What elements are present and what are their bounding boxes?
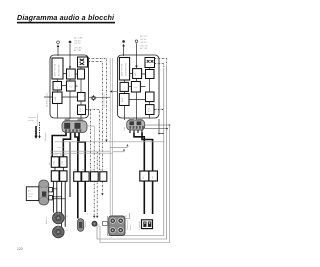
svg-text:EQ: EQ [135,87,138,89]
dash-dot wire from block I to mid vertical [86,110,99,172]
quad speaker connector (gray) [109,216,125,236]
front speaker 1 (woofer) [53,212,65,224]
svg-text:ALT CAN: ALT CAN [74,37,83,40]
wire from unit2 bottom to right bus [159,119,164,134]
row2 block 1 [51,171,59,182]
block H2 [146,92,155,102]
thick wire connector1 down-mid [79,133,85,212]
block H [78,93,86,102]
svg-text:ANT SX: ANT SX [51,154,59,157]
svg-text:uscita: uscita [28,119,34,122]
gray wire loop to quad connector (left) [109,58,111,216]
svg-text:Cavo alt.: Cavo alt. [57,146,65,149]
double wire pair from row2 block1 [53,181,56,212]
block A: preamp (tall) [52,58,63,79]
row2 block 4 [82,172,89,182]
row2 block 3 [74,172,81,182]
svg-text:120: 120 [17,247,23,251]
block F2 [131,82,140,93]
thick wire connector1 to block row [52,133,66,157]
crossing gray wire [55,141,165,143]
dash-dot wire from block I2 to right bus [154,109,164,111]
internal wires unit 1 [58,67,82,119]
svg-text:POSTERIORE: POSTERIORE [126,62,128,76]
capsule terminal 2 [49,196,53,200]
svg-text:ALT AN: ALT AN [74,49,81,52]
thick wire connector1 to tweeter line [75,133,78,219]
dash-dot wire from crossover B2 upper to right bus [155,59,167,66]
block C2 [133,69,142,79]
connector circle (open) above unit 2 [135,40,138,43]
svg-text:Amplificatore: Amplificatore [36,113,39,126]
dash-dot wire from crossover B lower [89,62,103,172]
label lines right of open circle 2 [140,35,148,50]
amplifier unit 2 outline [118,55,160,118]
block E2 [120,82,128,91]
svg-text:Cavo ottico dig.: Cavo ottico dig. [103,94,106,108]
thick wire connector2 to rear line 2 [142,133,153,215]
tweeter capsule (gray) [77,219,83,232]
thick wire connector2 to rear line 1 [134,133,144,215]
svg-text:Woofer post.: Woofer post. [126,219,129,230]
amplifier unit 1 outline [50,55,89,118]
terminal 2 wires [53,197,66,199]
block B: crossover (X icons) [78,57,88,67]
left stub wire into block G [44,96,53,98]
block I [78,105,86,115]
front speaker 2 (woofer) [53,226,65,238]
block I2 [146,105,155,115]
svg-text:AMP USCITA: AMP USCITA [121,63,124,76]
block D2 [146,70,155,79]
svg-text:4 ohm: 4 ohm [130,224,132,230]
connector circle (filled) above unit 2 [122,40,125,43]
connector circle (filled) above unit 1 [69,41,72,44]
svg-text:USC AN: USC AN [74,46,82,49]
svg-text:autom.: autom. [28,192,34,195]
row2 block 5 [91,172,99,182]
svg-text:REL: REL [54,161,56,165]
svg-text:ALT PO: ALT PO [140,35,148,38]
svg-text:Ingresso: Ingresso [28,116,37,119]
svg-text:SUB: SUB [149,107,151,112]
row1 block 2 [60,157,67,168]
row1-row2 stubs [55,167,63,171]
svg-text:TW: TW [74,169,77,171]
small midrange driver [92,221,97,226]
svg-text:Anteriori: Anteriori [45,216,48,224]
double wire pair from row2 block2 [62,181,66,227]
connector circle (open) above unit 1 [57,41,60,44]
row1 block 1 [51,157,59,168]
block A2: preamp (tall) [119,58,129,81]
dash-dot wire from crossover B2 lower to right bus [155,64,164,71]
thick wire connector1 to block row 2 [63,133,70,157]
block C: input stage [67,69,76,79]
harness connector 1 (gray) [65,119,71,123]
capsule terminal 1 [49,188,53,192]
wire connector1 mid descending [69,142,71,197]
left margin dash-dot arrow [39,122,41,136]
svg-text:LIN SX: LIN SX [140,39,147,41]
wire with up-arrow from block A to open circle [57,47,59,57]
left margin bold down-arrow [35,126,37,136]
label lines right of filled circle [74,37,83,53]
internal wires unit 2 [125,68,150,121]
row2 block 6 [100,172,107,182]
svg-text:LIN DX: LIN DX [140,42,147,44]
block G: output amp [53,92,63,104]
svg-text:FL: FL [143,176,145,178]
wire from open circle down into unit 2 [136,43,138,66]
title underline [17,22,115,24]
svg-text:AMP: AMP [121,97,124,102]
svg-text:REL: REL [62,161,64,165]
svg-text:Tweeter: Tweeter [84,221,87,228]
svg-text:Diagramma audio a blocchi: Diagramma audio a blocchi [17,13,115,22]
svg-text:amp.: amp. [28,196,33,198]
svg-text:Cablaggio: Cablaggio [45,132,47,142]
dash-dot wire from crossover B to mid vertical [89,58,107,140]
svg-text:Subwoofer: Subwoofer [138,221,141,230]
rear terminal box [142,220,153,229]
capsule label box [26,187,39,201]
svg-text:Cabl.: Cabl. [124,126,126,131]
rear filter block 2 [149,171,158,181]
rear filter block 1 [140,171,149,181]
gear icon between units [90,95,96,101]
block F [67,81,76,91]
svg-text:LIN DX: LIN DX [74,43,81,45]
block E [53,82,62,91]
wire from filled circle down into unit 1 [69,44,71,66]
wire unit2 to bus with arrow [112,91,118,93]
gray wire loop to quad connector (right) [113,150,124,153]
svg-text:ANT DX: ANT DX [60,154,68,157]
block G2 [119,94,129,106]
svg-text:Mid: Mid [99,224,101,227]
block B2: crossover (X icon) [145,58,155,68]
row2 block 2 [60,171,67,182]
harness connector 2 (gray) [129,118,134,122]
terminal 1 wires [53,189,57,191]
svg-text:SELETT: SELETT [69,69,71,77]
svg-text:USC PO: USC PO [140,45,148,47]
dash-dot wire parallel mid [93,142,95,217]
connector 1 pins [66,133,79,136]
svg-text:LIN SX: LIN SX [74,40,81,42]
svg-text:Ai diffusori ant.: Ai diffusori ant. [46,92,49,107]
connector 1 right wire [87,126,94,142]
block D [78,69,85,79]
svg-text:AMP USCITA: AMP USCITA [54,63,57,76]
quad connector top wires [125,213,130,219]
wire connector2 right side [145,125,170,129]
svg-text:SUB: SUB [80,107,82,112]
svg-text:EQ: EQ [70,87,73,89]
svg-text:ANTERIORE: ANTERIORE [58,64,61,76]
wire between units through gear [89,96,111,98]
connector 2 pins [130,130,142,133]
svg-text:ALT SB: ALT SB [140,47,148,50]
right bus third line [100,125,170,243]
antenna connector capsule (gray) [39,180,49,205]
svg-text:AMP: AMP [54,96,57,101]
wire with up-arrow from block A2 to filled circle [123,46,125,56]
svg-text:Ant.: Ant. [28,190,32,193]
quad connector plug stub [103,222,108,226]
